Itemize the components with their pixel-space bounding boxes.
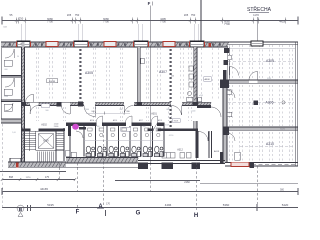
- corridor dimension line: [86, 112, 130, 114]
- svg-text:205: 205: [184, 13, 189, 17]
- A312 east wall: [196, 131, 199, 158]
- door opening corridor west 2: [62, 103, 71, 106]
- annex door arc 2: [5, 78, 14, 87]
- svg-text:A315: A315: [90, 119, 94, 122]
- wall stub dark: [68, 123, 71, 136]
- pier 3: [192, 163, 201, 170]
- grid tick I: [256, 204, 258, 211]
- annex fixture 3: [4, 104, 12, 111]
- door jamb box on wall: [141, 58, 145, 64]
- center dashed line A310: [240, 145, 294, 147]
- arrow under B: [18, 213, 23, 217]
- center dashed line A305: [228, 61, 294, 63]
- svg-text:2160: 2160: [184, 181, 190, 184]
- svg-text:E008: E008: [174, 121, 178, 123]
- right wing wall A306/A310: [223, 127, 298, 130]
- window W3: [134, 41, 148, 47]
- corner block bottom of A313: [220, 152, 223, 163]
- grid bubble B: [17, 205, 24, 212]
- boxed label A304: [121, 127, 131, 131]
- svg-text:A301: A301: [151, 113, 157, 116]
- window W4: [190, 41, 204, 47]
- door in corridor north wall near west end: [26, 103, 34, 106]
- svg-text:E0083: E0083: [49, 81, 56, 83]
- dimension line bottom full width: [2, 191, 298, 193]
- svg-text:2.600: 2.600: [54, 126, 59, 128]
- A308 label: [204, 77, 212, 82]
- A312 door leaf: [152, 128, 154, 131]
- svg-text:800: 800: [167, 109, 170, 111]
- dimension line bottom 1 (left): [2, 179, 75, 181]
- right wing east wall: [294, 42, 296, 166]
- svg-text:H: H: [194, 213, 198, 219]
- svg-text:750: 750: [75, 13, 80, 17]
- right wing wall A305/A306: [223, 80, 298, 83]
- svg-text:5195: 5195: [267, 78, 271, 80]
- boxed label E008 corridor right: [172, 119, 180, 123]
- svg-text:A302: A302: [41, 124, 47, 127]
- section line at x=201: [200, 0, 202, 43]
- svg-text:5020: 5020: [280, 128, 286, 130]
- svg-text:250: 250: [171, 76, 174, 78]
- svg-text:4496: 4496: [165, 203, 172, 207]
- bathroom stall partitions: [84, 126, 164, 157]
- window W1: [17, 41, 30, 47]
- svg-text:G: G: [136, 210, 141, 216]
- door arc A312 east: [199, 132, 209, 142]
- small room A313 east wall: [208, 131, 210, 158]
- roof edge wall top right: [228, 41, 298, 43]
- joist line pairs room A307: [146, 48, 191, 101]
- bench fixture above bottom wall: [162, 153, 191, 159]
- magenta highlight marker: [72, 124, 79, 130]
- bottom wall right wing: [225, 162, 298, 164]
- svg-text:3.08: 3.08: [165, 124, 169, 126]
- svg-text:A312: A312: [177, 149, 183, 152]
- bottom wall middle with piers: [138, 160, 225, 162]
- elevator shaft: [36, 131, 56, 150]
- corridor north wall: [22, 102, 211, 105]
- stair flight left treads: [23, 132, 36, 150]
- toilets: [86, 146, 163, 157]
- cleaning room wall: [69, 131, 71, 160]
- svg-text:1,00: 1,00: [12, 132, 16, 134]
- column in A306: [254, 101, 259, 106]
- sinks: [88, 128, 161, 137]
- window W5 in roof edge: [251, 41, 263, 46]
- svg-text:1500: 1500: [4, 96, 8, 98]
- witness line at x=257: [256, 17, 258, 42]
- small fixture on A305 west wall: [228, 55, 232, 60]
- pier block at corridor wall: [78, 102, 83, 107]
- bathroom rail line: [84, 140, 164, 142]
- svg-text:A318: A318: [158, 119, 162, 122]
- svg-text:868: 868: [9, 176, 14, 179]
- pier block left of door: [57, 102, 62, 107]
- svg-text:A306: A306: [266, 100, 274, 104]
- pier 1: [138, 163, 148, 170]
- svg-text:B: B: [19, 207, 23, 213]
- red mark on bottom wall: [16, 163, 18, 168]
- svg-text:A305: A305: [85, 71, 93, 75]
- door opening in A305/A306 wall: [249, 80, 258, 83]
- top wall hatch: [3, 42, 229, 47]
- dark end block of A305/A306 wall: [220, 80, 229, 88]
- terrace step line bottom left: [0, 171, 66, 173]
- svg-text:STŘECHA: STŘECHA: [247, 5, 272, 13]
- section line at x=151: [150, 6, 152, 164]
- bottom exterior wall left segment: [8, 162, 66, 167]
- joist line pairs corridor: [36, 107, 191, 121]
- joist line pairs right wing: [230, 45, 293, 161]
- left exterior wall of main building: [22, 42, 25, 163]
- annex fixture 2: [4, 89, 12, 95]
- svg-text:a149: a149: [199, 95, 203, 97]
- wall junction block right: [193, 102, 199, 106]
- wall pier marks: [9, 43, 221, 45]
- svg-text:A316: A316: [113, 119, 117, 122]
- A305 west wall thin: [227, 47, 229, 80]
- beam mark column left room: [79, 49, 81, 99]
- bathroom north wall: [66, 123, 165, 127]
- svg-text:900: 900: [46, 110, 49, 112]
- bottom exterior wall mid segment: [66, 158, 138, 164]
- svg-text:A305: A305: [266, 59, 274, 63]
- annex bottom wall: [1, 119, 22, 123]
- svg-text:7700: 7700: [47, 20, 53, 24]
- stair flight right treads: [56, 132, 64, 150]
- grid base line: [2, 207, 298, 209]
- top exterior wall: [1, 42, 228, 47]
- terrace line right: [200, 182, 298, 184]
- bathroom door 3: [151, 123, 158, 127]
- red marked opening R3: [163, 42, 175, 47]
- svg-text:44165: 44165: [40, 187, 48, 191]
- door arc A308 to corridor: [211, 107, 221, 117]
- joist line pairs room A308: [201, 48, 218, 101]
- wall stub A305 west mid: [224, 60, 229, 65]
- A312 north wall: [148, 128, 154, 131]
- circle symbol on A306 axis: [282, 101, 285, 104]
- radiator boxes on A307 east wall: [189, 66, 193, 87]
- svg-text:600: 600: [5, 69, 8, 71]
- top dimension line: [2, 20, 298, 22]
- annex partition wall 2: [1, 99, 22, 101]
- svg-text:90: 90: [17, 56, 19, 58]
- fixture in A310: [235, 152, 241, 160]
- wall junction block left: [22, 102, 26, 106]
- door opening in corridor north wall 3: [171, 102, 182, 106]
- red opening bottom right: [231, 162, 249, 166]
- interior wall between rooms x=137: [137, 47, 140, 102]
- svg-text:750: 750: [191, 13, 196, 17]
- door opening corridor west 1: [30, 103, 39, 106]
- door arc A310: [227, 133, 235, 141]
- outer face line of bottom wall: [66, 166, 140, 168]
- svg-text:A307: A307: [159, 70, 167, 74]
- corridor south wall near stairs: [22, 128, 65, 131]
- door arc in right wing: [227, 90, 235, 98]
- annex partition wall 1: [1, 75, 22, 77]
- svg-text:1170: 1170: [253, 13, 259, 17]
- wall stub A305 west top: [224, 48, 230, 53]
- door arrow in window W1: [20, 43, 23, 46]
- svg-text:900: 900: [143, 126, 146, 128]
- svg-text:A308: A308: [204, 78, 210, 81]
- svg-text:7700: 7700: [103, 20, 109, 24]
- fixtures along A306 west wall: [227, 90, 231, 95]
- svg-text:A309: A309: [43, 140, 49, 143]
- A308 south wall: [197, 105, 211, 108]
- boxed label E0083: [47, 79, 58, 83]
- red marked opening R1: [46, 42, 58, 47]
- right wing west wall lower: [223, 83, 227, 163]
- svg-text:A313: A313: [214, 150, 220, 153]
- boxed label in corridor: [41, 104, 50, 108]
- beam mark column A307: [170, 49, 172, 127]
- wall stub above A306 wall: [223, 70, 227, 80]
- svg-text:5420: 5420: [282, 203, 289, 207]
- svg-text:5360: 5360: [223, 203, 230, 207]
- A308 corner fixture: [198, 98, 202, 102]
- small step box above wall: [10, 158, 21, 162]
- bathroom door 2: [126, 123, 133, 127]
- corridor tick: [103, 112, 105, 115]
- svg-text:2400: 2400: [85, 109, 89, 111]
- dark block at A310 wall west end: [223, 127, 229, 135]
- sink fixtures SE corner A307: [187, 97, 193, 102]
- svg-text:175: 175: [45, 176, 50, 179]
- svg-text:1+500: 1+500: [191, 111, 196, 113]
- stair hall opening: [30, 128, 39, 131]
- svg-text:F: F: [76, 210, 80, 216]
- svg-text:7700: 7700: [160, 20, 166, 24]
- svg-text:4.150: 4.150: [169, 135, 174, 137]
- dimension line bottom middle: [115, 180, 200, 182]
- red mark small: [209, 43, 212, 47]
- window W2: [74, 41, 88, 47]
- door opening in corridor north wall 2: [124, 102, 134, 106]
- joist line pairs left big room: [36, 48, 123, 101]
- stair flight bottom treads: [37, 152, 56, 162]
- witness lines from dimensions to windows: [22, 24, 199, 41]
- svg-text:750: 750: [19, 17, 24, 21]
- wall junction block: [137, 102, 143, 106]
- door opening in corridor north wall 1: [84, 102, 95, 106]
- annex fixture 1: [4, 60, 12, 66]
- witness dashed lines bottom: [2, 124, 4, 210]
- pier below right wing wall: [250, 163, 255, 169]
- red marked opening R2: [104, 42, 116, 47]
- cleaning room fixtures: [66, 150, 70, 156]
- svg-text:900: 900: [97, 126, 100, 128]
- wall below corridor A312 east: [194, 121, 197, 130]
- svg-text:F: F: [148, 1, 151, 6]
- svg-text:7700: 7700: [224, 22, 230, 26]
- center dashed line A306: [228, 102, 294, 104]
- annex door arc 1: [5, 49, 14, 58]
- bathroom door 1: [96, 123, 103, 127]
- svg-text:205: 205: [67, 13, 72, 17]
- left annex outer wall: [0, 48, 2, 122]
- svg-text:900: 900: [120, 109, 123, 111]
- svg-text:4415: 4415: [279, 19, 285, 23]
- pier 2: [162, 163, 174, 170]
- svg-text:A317: A317: [139, 119, 143, 122]
- top dimension ticks: [15, 19, 286, 21]
- svg-text:1170: 1170: [26, 177, 31, 179]
- svg-text:5195: 5195: [47, 203, 54, 207]
- dark bar next to marker: [79, 127, 86, 130]
- svg-text:A310: A310: [266, 142, 274, 146]
- door arc SW corner A305: [230, 67, 239, 76]
- svg-text:90: 90: [151, 132, 153, 134]
- interior wall A307 east: [194, 47, 197, 102]
